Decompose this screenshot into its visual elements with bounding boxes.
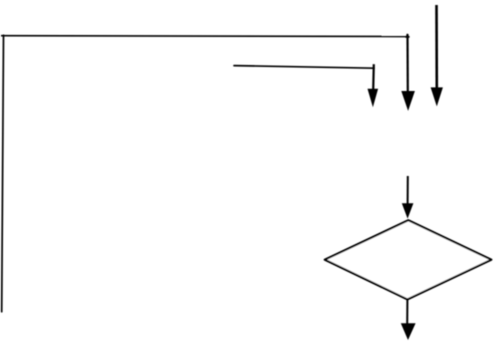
wire into diamond (407, 176, 409, 204)
wire short stub vertical (372, 64, 375, 90)
wire middle vertical stem (406, 34, 408, 93)
wire right vertical stem (435, 5, 438, 89)
arrowhead middle down (401, 91, 415, 111)
wire left vertical (2, 35, 4, 312)
arrowhead stub down (368, 89, 379, 107)
arrowhead up at junction node (405, 33, 409, 38)
wire out of diamond (406, 300, 408, 325)
arrowhead into diamond (402, 203, 414, 218)
wire second horizontal (234, 66, 374, 69)
wire top horizontal (1, 35, 410, 38)
arrowhead out of diamond (401, 323, 416, 340)
arrowhead right down (431, 87, 443, 106)
decision diamond (325, 220, 492, 299)
